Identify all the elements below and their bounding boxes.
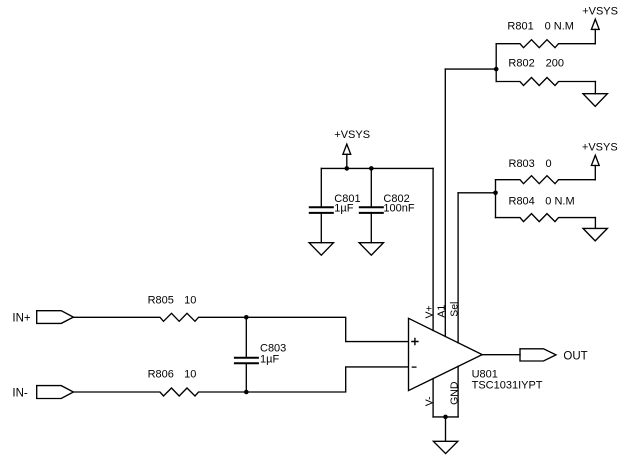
svg-text:+VSYS: +VSYS <box>582 141 618 153</box>
svg-text:IN-: IN- <box>12 388 28 400</box>
svg-text:R805: R805 <box>148 294 174 306</box>
svg-text:1µF: 1µF <box>334 203 353 215</box>
svg-text:V+: V+ <box>424 305 436 318</box>
svg-text:+VSYS: +VSYS <box>334 129 370 141</box>
svg-text:0: 0 <box>546 158 552 170</box>
svg-text:0 N.M: 0 N.M <box>545 195 574 207</box>
svg-text:GND: GND <box>448 381 460 405</box>
svg-text:100nF: 100nF <box>383 203 414 215</box>
svg-text:R802: R802 <box>508 57 534 69</box>
svg-text:OUT: OUT <box>563 351 587 363</box>
svg-text:TSC1031IYPT: TSC1031IYPT <box>472 380 543 392</box>
svg-text:0 N.M: 0 N.M <box>545 20 574 32</box>
svg-text:R806: R806 <box>148 369 174 381</box>
svg-text:200: 200 <box>546 57 564 69</box>
svg-text:R803: R803 <box>509 158 535 170</box>
svg-text:1µF: 1µF <box>260 354 279 366</box>
svg-text:R804: R804 <box>509 195 535 207</box>
svg-text:IN+: IN+ <box>12 313 31 325</box>
svg-text:10: 10 <box>184 294 196 306</box>
svg-text:Sel: Sel <box>448 302 460 317</box>
svg-text:A1: A1 <box>436 305 448 318</box>
svg-text:V-: V- <box>424 396 436 406</box>
svg-text:R801: R801 <box>507 20 533 32</box>
svg-text:+VSYS: +VSYS <box>582 6 618 18</box>
svg-text:10: 10 <box>184 369 196 381</box>
svg-text:C803: C803 <box>260 342 286 354</box>
